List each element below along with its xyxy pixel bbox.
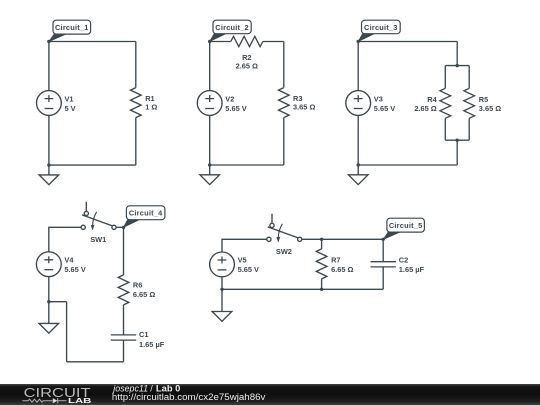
node label Circuit_5	[383, 218, 424, 239]
resistor R3	[279, 88, 290, 118]
ground (circuit 5)	[212, 289, 232, 321]
svg-text:C1: C1	[139, 330, 148, 339]
wire: V5 top to switch SW2	[222, 239, 267, 289]
wire: parallel bottom bar	[445, 139, 469, 141]
switch SW1 terminal circles	[81, 211, 116, 229]
voltage source V1	[37, 91, 62, 116]
svg-text:3.65 Ω: 3.65 Ω	[479, 104, 501, 113]
svg-text:Circuit_3: Circuit_3	[364, 23, 398, 32]
svg-text:2.65 Ω: 2.65 Ω	[414, 104, 436, 113]
wire: circuit 4 right vertical to R6	[123, 227, 125, 275]
switch SW1 actuation arrow	[91, 212, 97, 231]
label R2 2.65 Ohm	[236, 53, 258, 71]
ground (circuit 1)	[39, 165, 59, 185]
wire: R4 branch top	[444, 66, 446, 89]
voltage source V2	[197, 91, 222, 116]
junction: circuit 4 ground node	[47, 300, 50, 303]
wire: circuit 3 right vertical lower	[456, 140, 458, 165]
wire: R5 branch bottom	[468, 118, 470, 140]
label R7 6.65 Ohm	[331, 256, 353, 275]
label V5 value	[238, 256, 259, 275]
wire: circuit 2 top right segment	[263, 41, 284, 43]
wire: circuit 2 right vertical upper	[283, 42, 285, 88]
svg-text:SW1: SW1	[90, 235, 106, 244]
svg-text:Circuit_4: Circuit_4	[129, 209, 163, 218]
switch SW2 lever	[268, 227, 299, 238]
wire: circuit 1 right vertical upper	[135, 42, 137, 88]
svg-text:Circuit_2: Circuit_2	[215, 23, 249, 32]
switch SW2 top stub	[271, 214, 273, 224]
wire: circuit 3 left vertical	[357, 42, 359, 166]
wire: circuit 1 right vertical lower	[135, 118, 137, 166]
wire: circuit 2 left vertical	[209, 42, 211, 166]
voltage source V3	[346, 91, 371, 116]
switch SW2 terminal circles	[267, 223, 302, 241]
switch SW1 top stub	[85, 202, 87, 212]
wire: circuit 5 bottom rail	[222, 288, 383, 290]
junction: circuit 1 ground node	[47, 163, 50, 166]
wire: SW1 right terminal to node	[116, 226, 123, 228]
switch SW2 actuation arrow	[276, 224, 282, 243]
junction: circuit 2 ground node	[208, 163, 211, 166]
svg-text:V5: V5	[238, 256, 247, 265]
svg-text:V2: V2	[225, 94, 234, 103]
node Circuit_3 anchor	[357, 40, 360, 43]
wire: top rail R7 node to C2 node	[322, 238, 384, 240]
capacitor C2	[371, 262, 396, 267]
svg-text:5 V: 5 V	[65, 104, 76, 113]
svg-text:1.65 µF: 1.65 µF	[139, 340, 165, 349]
wire: circuit 1 bottom	[49, 164, 136, 166]
resistor R1	[131, 88, 142, 118]
svg-text:5.65 V: 5.65 V	[374, 104, 395, 113]
node label Circuit_3	[358, 20, 400, 41]
wire: circuit 4 bottom rail	[67, 361, 124, 363]
svg-text:Circuit_1: Circuit_1	[55, 23, 89, 32]
svg-text:R7: R7	[331, 256, 340, 265]
wire: circuit 4 left return vertical	[66, 302, 68, 362]
resistor R6	[118, 275, 129, 305]
label R1 1 Ohm	[145, 94, 157, 112]
svg-text:http://circuitlab.com/cx2e75wj: http://circuitlab.com/cx2e75wjah86v	[112, 392, 266, 402]
ground (circuit 4)	[39, 302, 59, 334]
svg-text:6.65 Ω: 6.65 Ω	[133, 290, 155, 299]
label R4 2.65 Ohm	[414, 95, 437, 113]
label V2 value	[225, 94, 246, 113]
voltage source V5	[210, 252, 235, 277]
svg-text:5.65 V: 5.65 V	[238, 265, 259, 274]
svg-text:6.65 Ω: 6.65 Ω	[331, 265, 353, 274]
junction: circuit 5 ground node	[220, 288, 223, 291]
wire: circuit 3 right drop to parallel pair	[456, 42, 458, 66]
junction: circuit 3 ground node	[357, 163, 360, 166]
wire: circuit 2 bottom	[210, 164, 284, 166]
wire: V4 top to switch SW1	[49, 227, 81, 301]
junction: R7 top	[320, 238, 323, 241]
node label Circuit_4	[124, 206, 165, 228]
svg-text:SW2: SW2	[276, 247, 292, 256]
footer background	[0, 384, 540, 405]
resistor R5	[464, 88, 475, 118]
resistor R2	[231, 36, 263, 46]
wire: C1 bottom to bottom rail	[123, 340, 125, 362]
node label Circuit_2	[210, 20, 252, 41]
wire: parallel top bar	[445, 65, 469, 67]
node label Circuit_1	[49, 20, 91, 41]
label V3 value	[374, 94, 395, 113]
resistor R7	[316, 249, 327, 279]
node Circuit_1 anchor	[47, 40, 50, 43]
label R6 6.65 Ohm	[133, 281, 155, 299]
junction: parallel bottom	[456, 139, 459, 142]
svg-text:3.65 Ω: 3.65 Ω	[293, 102, 315, 111]
footer title: josepc11 / Lab 0	[112, 384, 180, 394]
wire: circuit 3 top	[358, 41, 457, 43]
wire: circuit 3 bottom	[358, 164, 457, 166]
node Circuit_4 anchor	[122, 226, 125, 229]
ground (circuit 2)	[200, 165, 220, 185]
svg-text:V3: V3	[374, 94, 383, 103]
svg-text:5.65 V: 5.65 V	[64, 265, 85, 274]
wire: SW2 right terminal to R7 node	[302, 238, 322, 240]
wire: circuit 2 top left segment	[210, 41, 231, 43]
wire: R7 branch bottom	[321, 279, 323, 289]
wire: R7 branch top	[321, 239, 323, 249]
label C1 1.65 uF	[139, 330, 165, 349]
svg-text:5.65 V: 5.65 V	[225, 104, 246, 113]
svg-text:V4: V4	[64, 256, 74, 265]
voltage source V4	[36, 252, 61, 277]
node Circuit_5 anchor	[382, 238, 385, 241]
svg-text:R6: R6	[133, 281, 142, 290]
label V1 value	[65, 94, 76, 113]
label C2 1.65 uF	[399, 256, 425, 275]
svg-text:R5: R5	[479, 95, 488, 104]
svg-text:V1: V1	[65, 94, 74, 103]
wire: circuit 2 right vertical lower	[283, 118, 285, 165]
svg-text:1.65 µF: 1.65 µF	[399, 265, 425, 274]
logo resistor-diode glyph	[22, 398, 66, 403]
ground (circuit 3)	[348, 165, 368, 185]
wire: C2 branch bottom	[382, 267, 384, 289]
label R5 3.65 Ohm	[479, 95, 501, 113]
svg-text:R4: R4	[427, 95, 437, 104]
wire: circuit 1 left vertical	[48, 42, 50, 166]
label R3 3.65 Ohm	[293, 94, 315, 112]
logo diode triangle	[53, 398, 58, 403]
wire: R4 branch bottom	[444, 118, 446, 140]
label V4 value	[64, 256, 85, 275]
capacitor C1	[111, 335, 136, 340]
svg-text:2.65 Ω: 2.65 Ω	[236, 62, 258, 71]
junction: R7 bottom	[320, 288, 323, 291]
svg-text:C2: C2	[399, 256, 408, 265]
wire: R5 branch top	[468, 66, 470, 89]
wire: C2 branch top	[382, 239, 384, 261]
switch SW1 lever	[82, 215, 113, 226]
wire: circuit 1 top (node to R1 top corner)	[49, 41, 136, 43]
junction: parallel top	[456, 64, 459, 67]
node Circuit_2 anchor	[208, 40, 211, 43]
wire: R6 bottom to C1	[123, 305, 125, 335]
svg-text:1 Ω: 1 Ω	[145, 102, 157, 111]
resistor R4	[440, 88, 451, 118]
svg-text:LAB: LAB	[68, 396, 92, 405]
wire: circuit 4 return to ground node	[49, 301, 67, 303]
svg-text:Circuit_5: Circuit_5	[389, 221, 423, 230]
